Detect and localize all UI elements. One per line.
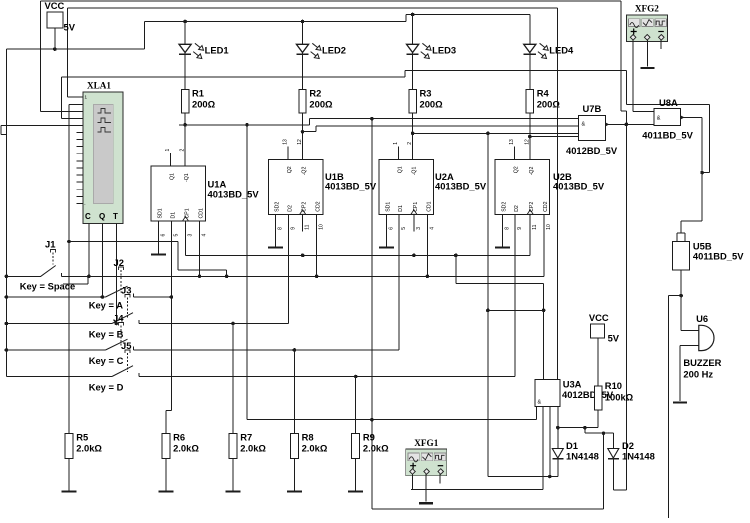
svg-text:3: 3 xyxy=(188,234,194,237)
svg-text:CP2: CP2 xyxy=(529,202,535,212)
svg-text:Q: Q xyxy=(99,212,105,221)
svg-text:1: 1 xyxy=(165,149,171,152)
svg-text:&: & xyxy=(582,122,586,128)
svg-text:J5: J5 xyxy=(121,340,131,351)
svg-text:XFG2: XFG2 xyxy=(635,4,659,14)
svg-text:9: 9 xyxy=(290,227,296,230)
svg-text:U6: U6 xyxy=(696,313,708,324)
svg-text:XLA1: XLA1 xyxy=(87,81,111,91)
svg-text:13: 13 xyxy=(283,139,289,145)
svg-text:2.0kΩ: 2.0kΩ xyxy=(363,442,389,453)
svg-text:R10: R10 xyxy=(605,380,622,391)
svg-text:CP2: CP2 xyxy=(302,202,308,212)
svg-text:': ' xyxy=(85,203,86,208)
svg-text:200Ω: 200Ω xyxy=(192,99,216,110)
svg-text:R2: R2 xyxy=(309,88,321,99)
svg-text:XFG1: XFG1 xyxy=(414,438,438,448)
svg-text:D2: D2 xyxy=(622,440,634,451)
svg-text:J2: J2 xyxy=(114,257,124,268)
svg-text:&: & xyxy=(657,116,661,122)
svg-text:LED2: LED2 xyxy=(322,45,346,56)
svg-text:4011BD_5V: 4011BD_5V xyxy=(693,251,744,262)
svg-text:Q2: Q2 xyxy=(287,166,293,173)
svg-text:J4: J4 xyxy=(113,313,124,324)
svg-text:R7: R7 xyxy=(240,431,252,442)
svg-text:2.0kΩ: 2.0kΩ xyxy=(302,442,328,453)
svg-text:6: 6 xyxy=(160,234,166,237)
svg-text:8: 8 xyxy=(278,227,284,230)
svg-text:5: 5 xyxy=(401,227,407,230)
svg-text:Key = Space: Key = Space xyxy=(20,281,76,292)
svg-text:SD2: SD2 xyxy=(275,202,281,212)
svg-text:5V: 5V xyxy=(608,333,620,344)
svg-text:Q1: Q1 xyxy=(398,166,404,173)
svg-text:12: 12 xyxy=(297,139,303,145)
svg-text:LED4: LED4 xyxy=(549,45,574,56)
svg-text:SD2: SD2 xyxy=(501,202,507,212)
svg-text:4: 4 xyxy=(202,234,208,237)
svg-text:12: 12 xyxy=(524,139,530,145)
svg-text:200Ω: 200Ω xyxy=(420,99,444,110)
svg-text:Key = D: Key = D xyxy=(89,382,124,393)
svg-text:R6: R6 xyxy=(173,431,185,442)
svg-text:D2: D2 xyxy=(514,205,520,212)
svg-text:Q1: Q1 xyxy=(170,173,176,180)
svg-text:4013BD_5V: 4013BD_5V xyxy=(435,181,487,192)
svg-text:4013BD_5V: 4013BD_5V xyxy=(208,189,260,200)
svg-text:-Q2: -Q2 xyxy=(529,167,535,176)
svg-text:Key = A: Key = A xyxy=(89,300,124,311)
svg-text:Key = B: Key = B xyxy=(89,329,124,340)
svg-text:SD1: SD1 xyxy=(157,208,163,218)
svg-text:6: 6 xyxy=(388,227,394,230)
svg-text:R4: R4 xyxy=(537,88,550,99)
svg-text:2.0kΩ: 2.0kΩ xyxy=(240,442,266,453)
svg-text:200Ω: 200Ω xyxy=(309,99,333,110)
svg-text:11: 11 xyxy=(532,224,538,229)
svg-text:1N4148: 1N4148 xyxy=(566,451,599,462)
svg-text:4013BD_5V: 4013BD_5V xyxy=(553,181,605,192)
svg-text:U7B: U7B xyxy=(583,103,602,114)
svg-text:BUZZER: BUZZER xyxy=(683,357,721,368)
svg-text:R9: R9 xyxy=(363,431,375,442)
svg-text:U8A: U8A xyxy=(659,97,678,108)
svg-text:-Q1: -Q1 xyxy=(412,167,418,176)
svg-text:2: 2 xyxy=(180,149,186,152)
svg-text:4011BD_5V: 4011BD_5V xyxy=(642,130,693,141)
svg-text:13: 13 xyxy=(509,139,515,145)
svg-text:4012BD_5V: 4012BD_5V xyxy=(566,145,618,156)
svg-text:T: T xyxy=(113,212,118,221)
svg-text:2: 2 xyxy=(407,142,413,145)
svg-text:J3: J3 xyxy=(121,285,131,296)
svg-text:3: 3 xyxy=(416,227,422,230)
svg-text:R3: R3 xyxy=(420,88,432,99)
svg-text:LED3: LED3 xyxy=(432,45,456,56)
svg-text:10: 10 xyxy=(546,224,552,230)
svg-text:R1: R1 xyxy=(192,88,204,99)
svg-text:CD2: CD2 xyxy=(543,201,549,211)
svg-text:D1: D1 xyxy=(566,440,578,451)
svg-text:D2: D2 xyxy=(287,205,293,212)
svg-text:C: C xyxy=(85,212,91,221)
svg-text:4013BD_5V: 4013BD_5V xyxy=(325,181,377,192)
svg-text:SD1: SD1 xyxy=(385,202,391,212)
svg-text:CP1: CP1 xyxy=(185,208,191,218)
svg-text:D1: D1 xyxy=(170,212,176,219)
svg-text:1N4148: 1N4148 xyxy=(622,451,655,462)
svg-text:CD1: CD1 xyxy=(199,208,205,218)
svg-text:R8: R8 xyxy=(302,431,314,442)
svg-text:5V: 5V xyxy=(64,22,76,33)
svg-text:100kΩ: 100kΩ xyxy=(605,392,634,403)
svg-text:9: 9 xyxy=(517,227,523,230)
svg-text:VCC: VCC xyxy=(589,312,609,323)
svg-text:4: 4 xyxy=(429,227,435,230)
svg-text:J1: J1 xyxy=(45,239,55,250)
svg-text:&: & xyxy=(538,400,542,406)
svg-text:2.0kΩ: 2.0kΩ xyxy=(76,442,102,453)
svg-text:CP1: CP1 xyxy=(413,202,419,212)
svg-text:R5: R5 xyxy=(76,431,88,442)
svg-text:5: 5 xyxy=(173,234,179,237)
svg-text:200 Hz: 200 Hz xyxy=(683,368,713,379)
svg-text:Q2: Q2 xyxy=(514,166,520,173)
svg-text:LED1: LED1 xyxy=(205,45,229,56)
svg-text:-Q1: -Q1 xyxy=(184,173,190,182)
svg-text:10: 10 xyxy=(319,224,325,230)
svg-text:200Ω: 200Ω xyxy=(537,99,561,110)
svg-text:1: 1 xyxy=(393,142,399,145)
svg-text:Key = C: Key = C xyxy=(89,355,124,366)
svg-text:8: 8 xyxy=(504,227,510,230)
svg-text:2.0kΩ: 2.0kΩ xyxy=(173,442,199,453)
svg-text:U3A: U3A xyxy=(563,379,582,390)
svg-text:D1: D1 xyxy=(398,205,404,212)
svg-text:VCC: VCC xyxy=(45,0,65,11)
svg-text:CD1: CD1 xyxy=(426,201,432,211)
svg-text:CD2: CD2 xyxy=(316,201,322,211)
svg-text:-Q2: -Q2 xyxy=(302,167,308,176)
svg-text:11: 11 xyxy=(305,224,311,229)
